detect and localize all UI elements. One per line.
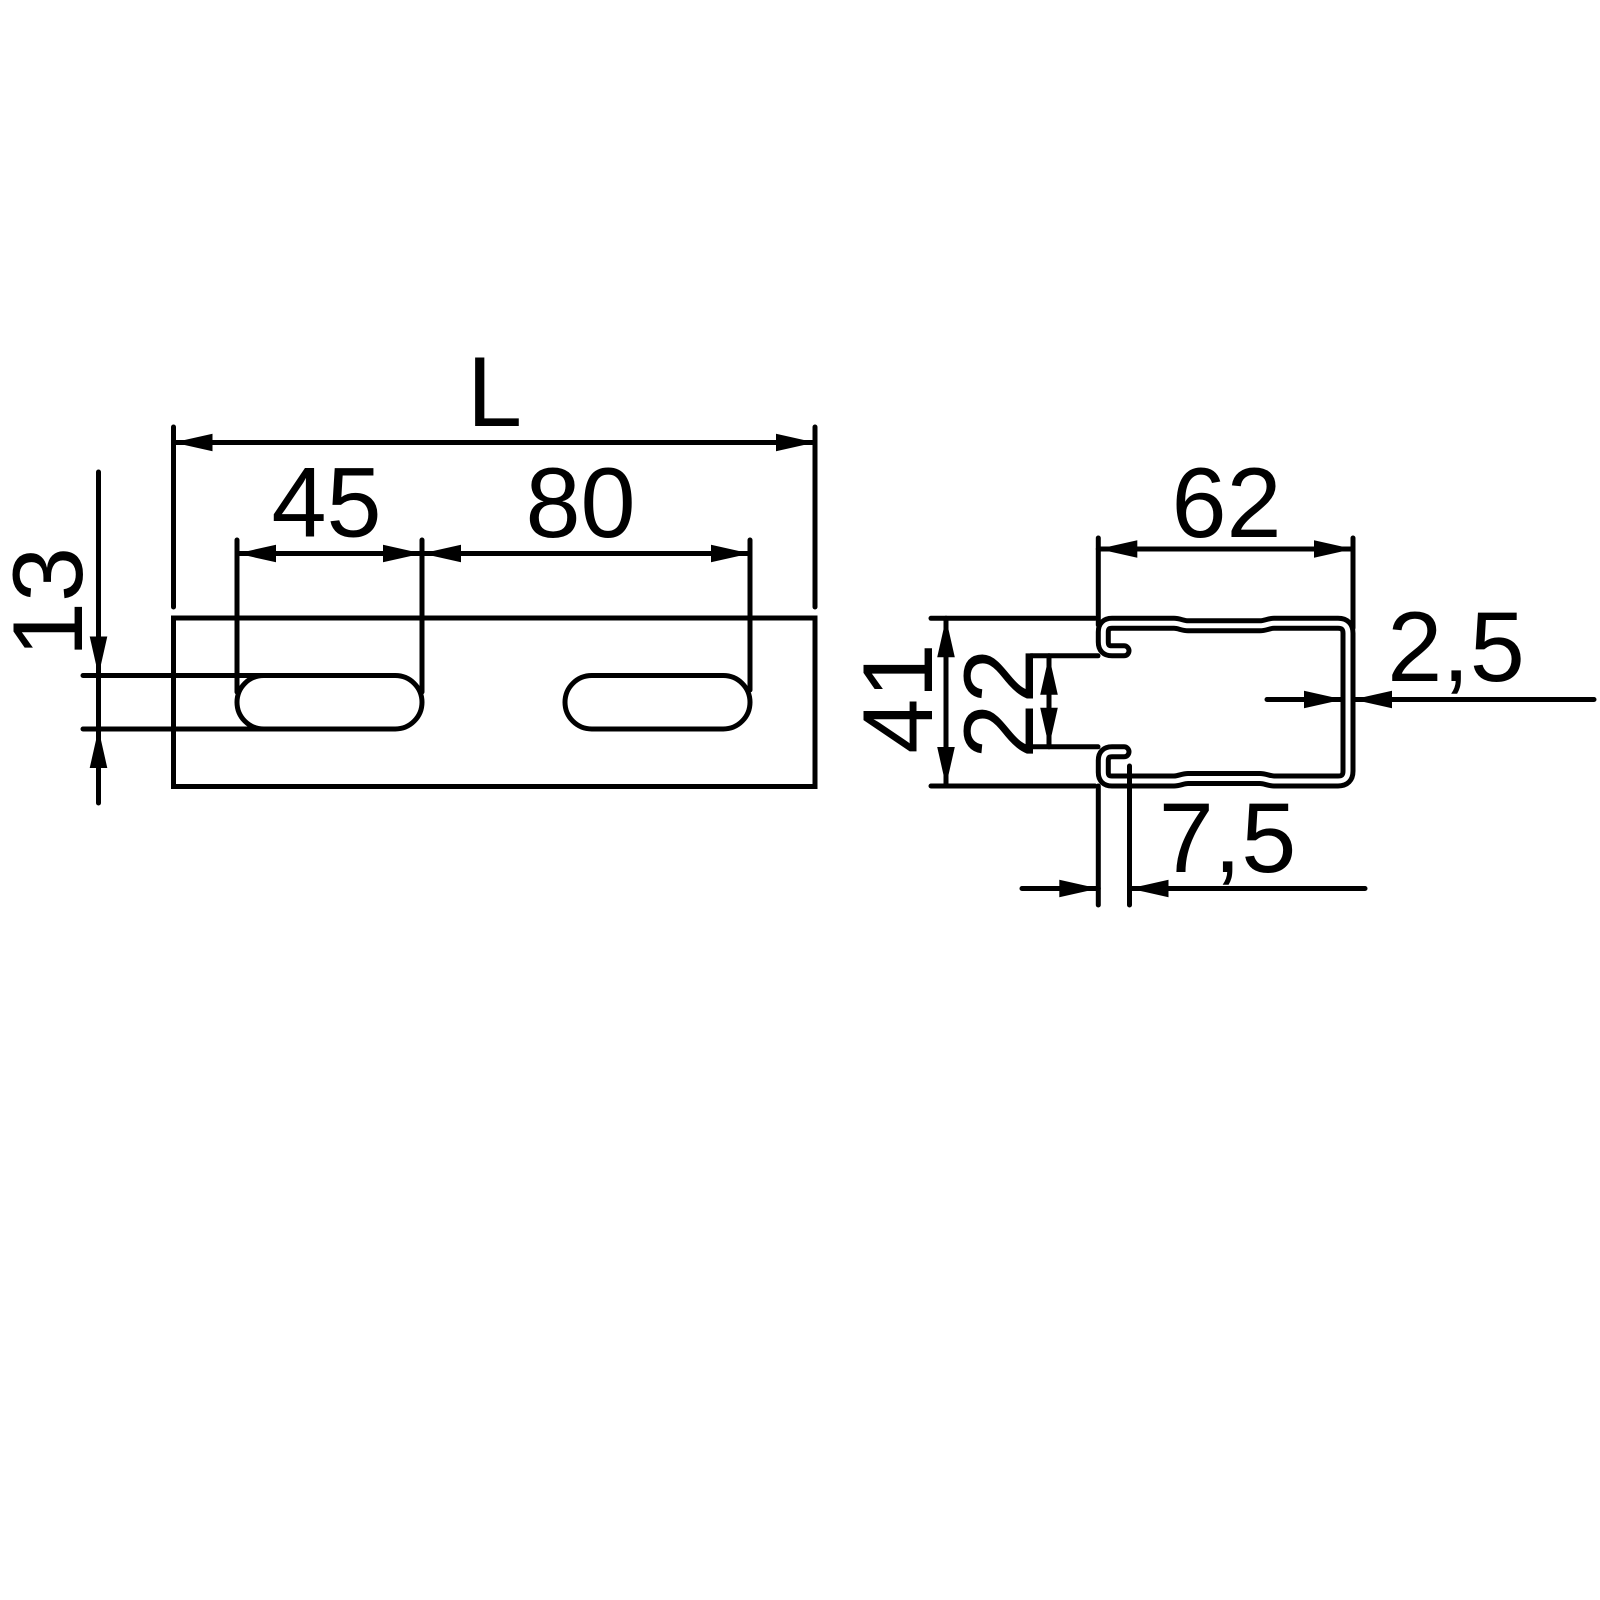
dimension 13 extension line bottom	[83, 727, 270, 732]
dimension 7,5 extension line left	[1096, 786, 1101, 905]
svg-text:7,5: 7,5	[1159, 782, 1297, 893]
svg-text:13: 13	[0, 547, 103, 657]
svg-text:62: 62	[1171, 447, 1281, 558]
dimension 22 arrow bottom	[1040, 708, 1058, 747]
svg-text:L: L	[467, 336, 522, 447]
dimension 13 arrow top	[90, 637, 108, 676]
dimension 41 extension line bottom	[931, 784, 1095, 789]
dimension 7,5 arrow left	[1059, 880, 1098, 898]
dimension 45 arrow right	[383, 545, 422, 563]
dimension 45 extension line left	[235, 540, 240, 692]
slot 1 (left slotted hole)	[237, 676, 422, 730]
dimension 41 arrow top	[937, 618, 955, 657]
dimension 41 line	[944, 618, 949, 786]
dimension L line	[174, 440, 816, 445]
dimension 62 arrow left	[1098, 540, 1137, 558]
dimension 22 arrow top	[1040, 656, 1058, 695]
dimension 62 line	[1098, 547, 1353, 552]
C-profile cross-section (sheet drawn as outer+inner contour)	[1103, 623, 1348, 781]
dimension 41 extension line top	[931, 616, 1095, 621]
dimension 62 extension line left	[1096, 538, 1101, 625]
dimension 13 line	[96, 472, 101, 803]
dimension 7,5 line right part	[1130, 886, 1366, 891]
dimension 22 extension line top	[1031, 653, 1098, 658]
dimension L arrow left	[174, 434, 213, 452]
svg-text:22: 22	[943, 648, 1054, 758]
svg-text:45: 45	[271, 447, 381, 558]
svg-text:80: 80	[525, 447, 635, 558]
dimension 45 arrow left	[237, 545, 276, 563]
dimension 22 extension line bottom	[1031, 744, 1098, 749]
slot 2 (right slotted hole)	[565, 676, 750, 730]
dimension 13 arrow bottom	[90, 729, 108, 768]
dimension L extension line left	[171, 427, 176, 607]
dimension 80 arrow left	[422, 545, 461, 563]
dimension 45/80 line	[237, 551, 750, 556]
dimension 13 extension line top	[83, 673, 270, 678]
dimension 2,5 arrow inside	[1304, 691, 1343, 709]
dimension 45/80 shared extension line	[420, 540, 425, 692]
dimension 7,5 line left part	[1022, 886, 1098, 891]
dimension L extension line right	[813, 427, 818, 607]
side view plate outline	[174, 618, 816, 787]
dimension 41 arrow bottom	[937, 747, 955, 786]
dimension 62 extension line right	[1351, 538, 1356, 628]
dimension 7,5 arrow right	[1130, 880, 1169, 898]
dimension 2,5 leader line inside	[1267, 697, 1343, 702]
dimension 2,5 arrow outside	[1353, 691, 1392, 709]
dimension 2,5 leader line outside	[1353, 697, 1594, 702]
dimension 80 extension line right	[748, 540, 753, 690]
dimension 62 arrow right	[1314, 540, 1353, 558]
dimension 80 arrow right	[711, 545, 750, 563]
dimension 22 line	[1047, 656, 1052, 747]
svg-text:41: 41	[842, 643, 953, 753]
dimension L arrow right	[776, 434, 815, 452]
dimension 7,5 extension line right	[1127, 766, 1132, 905]
svg-text:2,5: 2,5	[1387, 591, 1525, 702]
